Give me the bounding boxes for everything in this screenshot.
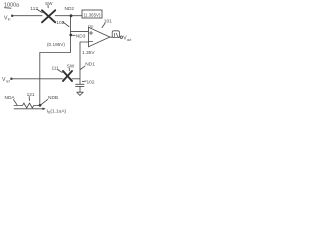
svg-text:SW: SW (45, 1, 53, 6)
svg-text:(1.365V): (1.365V) (84, 12, 101, 17)
svg-text:121: 121 (27, 92, 35, 98)
svg-text:NDB: NDB (48, 95, 58, 101)
svg-text:111: 111 (52, 65, 60, 71)
svg-text:112: 112 (30, 6, 38, 12)
svg-text:out: out (127, 38, 132, 42)
svg-text:in: in (8, 18, 11, 22)
svg-text:101: 101 (104, 18, 112, 24)
svg-text:102: 102 (87, 79, 95, 85)
svg-text:1.35V: 1.35V (82, 50, 95, 56)
svg-text:ND1: ND1 (85, 62, 95, 68)
svg-text:SW: SW (67, 64, 75, 69)
svg-text:Dp: Dp (88, 24, 94, 29)
svg-text:(0.195V): (0.195V) (47, 42, 65, 47)
svg-text:(1.1uA): (1.1uA) (50, 108, 66, 114)
svg-text:ref: ref (6, 79, 10, 83)
svg-text:ND2: ND2 (65, 6, 75, 12)
svg-text:102: 102 (56, 20, 64, 26)
svg-text:NDA: NDA (5, 95, 16, 101)
svg-text:1000a: 1000a (4, 3, 19, 9)
svg-text:ND3: ND3 (76, 33, 86, 39)
